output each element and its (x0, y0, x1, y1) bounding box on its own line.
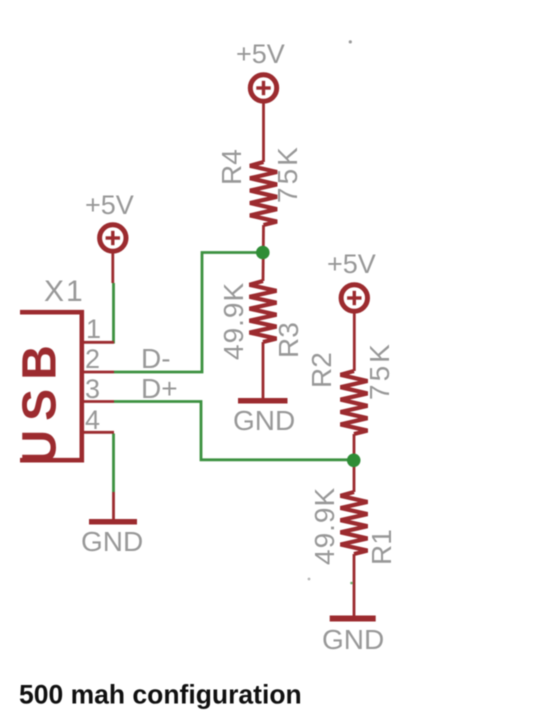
pin 2 stub (84, 371, 114, 374)
wire R1 to GND (353, 554, 356, 616)
svg-text:49.9K: 49.9K (218, 282, 249, 360)
svg-text:X1: X1 (44, 275, 85, 308)
stray dot artifact top right (349, 40, 352, 43)
svg-text:GND: GND (233, 405, 295, 436)
supply symbol +5V over USB pin1 (100, 225, 126, 283)
svg-text:+5V: +5V (85, 190, 134, 220)
wire R2 to R1 (353, 434, 356, 492)
wire net D- pin2 to R4/R3 junction (114, 253, 262, 373)
wire net GND pin4 down (112, 434, 115, 493)
pin 1 stub (84, 341, 114, 344)
supply symbol +5V over R4 (250, 75, 276, 162)
junction node R2/R1/D+ (347, 454, 361, 468)
stray dot artifact left of R1 (308, 578, 311, 581)
resistor R1 body (341, 492, 368, 554)
wire net N$1 pin1 to +5V (112, 283, 115, 344)
resistor R3 body (250, 281, 277, 342)
svg-text:R2: R2 (306, 352, 337, 388)
ground symbol under R1 (330, 616, 376, 622)
svg-text:+5V: +5V (236, 39, 285, 69)
stray green speck on R1 wire (350, 582, 353, 585)
supply symbol +5V over R2 (341, 285, 367, 371)
svg-text:GND: GND (81, 526, 143, 557)
svg-text:D+: D+ (141, 373, 178, 404)
svg-text:D-: D- (141, 343, 171, 374)
wire pin4 red stub to GND (112, 492, 115, 519)
svg-text:75K: 75K (364, 341, 395, 400)
svg-text:R4: R4 (216, 149, 247, 185)
svg-text:2: 2 (85, 344, 100, 374)
svg-text:GND: GND (322, 624, 384, 655)
pin 3 stub (84, 400, 114, 403)
svg-text:4: 4 (85, 405, 100, 435)
svg-text:3: 3 (85, 374, 100, 404)
svg-text:49.9K: 49.9K (309, 487, 340, 565)
svg-text:R3: R3 (273, 322, 304, 358)
junction node R4/R3/D- (256, 246, 270, 260)
ground symbol under pin 4 (89, 519, 137, 525)
ground symbol under R3 (238, 398, 288, 404)
pin 4 stub (84, 431, 114, 434)
wire net D+ pin3 to R2/R1 junction (114, 402, 353, 460)
resistor R2 body (341, 371, 368, 434)
svg-text:+5V: +5V (327, 249, 376, 279)
svg-text:1: 1 (86, 314, 101, 344)
USB connector X1 body (20, 312, 82, 460)
svg-text:R1: R1 (366, 529, 397, 565)
svg-text:75K: 75K (272, 144, 303, 203)
resistor R4 body (250, 162, 277, 225)
wire R4 to R3 (262, 225, 265, 281)
svg-text:500 mah configuration: 500 mah configuration (19, 680, 302, 710)
svg-text:USB: USB (14, 336, 67, 464)
wire R3 to GND (262, 342, 265, 398)
